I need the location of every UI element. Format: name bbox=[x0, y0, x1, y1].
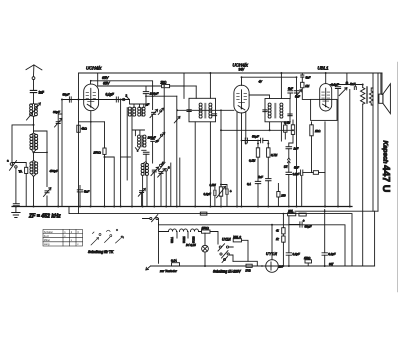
capacitor det B bbox=[261, 138, 263, 143]
wire tube2 diode pin bbox=[245, 112, 247, 139]
wire lamp stubs bbox=[204, 233, 206, 266]
switch TK sketch bbox=[91, 229, 124, 245]
wire jog 152-177 bbox=[146, 95, 177, 97]
resistor 1M grid3 bbox=[301, 82, 304, 88]
wire rail2 continue bbox=[184, 85, 196, 87]
wire 278 stubs bbox=[277, 184, 279, 207]
tube V4 rectifier UY1N bbox=[266, 260, 279, 273]
wire screen feed stub bbox=[97, 73, 99, 86]
svg-text:0,1µF: 0,1µF bbox=[204, 192, 211, 196]
capacitor trimmer t2 bbox=[158, 169, 166, 178]
svg-text:0,1µF: 0,1µF bbox=[328, 252, 335, 256]
svg-text:447 U: 447 U bbox=[380, 165, 391, 192]
switch wave band S1 bbox=[7, 159, 17, 171]
svg-text:250Ω: 250Ω bbox=[93, 151, 102, 155]
wire rectifier sides bbox=[252, 265, 374, 267]
wire coupler down and left to switch bbox=[12, 116, 34, 162]
wire column 171 bbox=[170, 163, 172, 207]
resistor on H4 bbox=[200, 212, 207, 215]
resistor 278 bbox=[277, 192, 280, 198]
coil L1 tuning bbox=[30, 125, 38, 152]
resistor det 0.7M bbox=[267, 148, 270, 157]
tube U1 UCH4 bbox=[84, 84, 99, 111]
switch contact upper b bbox=[159, 132, 165, 139]
wire plate border right bbox=[397, 62, 399, 292]
capacitor 214 stub bbox=[214, 190, 216, 195]
wire antenna to cap bbox=[33, 80, 35, 90]
svg-text:UCH4/x: UCH4/x bbox=[86, 66, 102, 71]
svg-text:65V: 65V bbox=[102, 76, 109, 80]
wire tuning gang right bbox=[34, 131, 48, 207]
svg-text:UBL1: UBL1 bbox=[318, 66, 330, 71]
svg-text:1M: 1M bbox=[305, 84, 310, 88]
wire filter resistor stub bbox=[307, 263, 309, 266]
antenna bbox=[26, 65, 42, 70]
svg-text:Lang: Lang bbox=[44, 243, 50, 246]
lamp dial bbox=[202, 245, 209, 252]
wire output transformer columns bbox=[355, 85, 362, 267]
svg-text:2kΩ: 2kΩ bbox=[160, 81, 167, 85]
node contact 2 bbox=[123, 93, 130, 100]
svg-text:ZF = 452 kHz: ZF = 452 kHz bbox=[28, 214, 61, 220]
wire det lower to bus bbox=[288, 149, 290, 207]
wire speaker links bbox=[371, 88, 373, 105]
tube U2 UCH4 bbox=[234, 85, 249, 113]
wire 0.3Mb stubs bbox=[284, 122, 286, 139]
ground main bbox=[12, 207, 20, 218]
wire stub 114 bbox=[105, 157, 115, 207]
svg-text:B4 0,25: B4 0,25 bbox=[186, 243, 196, 247]
wire right verticals bottom bbox=[374, 211, 376, 266]
wire column 152 lower bbox=[152, 116, 154, 163]
wire padder jog bbox=[142, 149, 146, 151]
wire column 180 bbox=[179, 158, 181, 207]
coil antenna coupler bbox=[27, 103, 41, 120]
wire tube3 top cap bbox=[325, 73, 327, 84]
wire right frame columns bbox=[373, 73, 382, 211]
capacitor tone 0.1uF bbox=[335, 87, 340, 89]
resistor dropper R22 bbox=[282, 236, 285, 242]
resistor 0.3M bbox=[291, 125, 294, 135]
wire 0.7M column bbox=[267, 157, 269, 178]
wire selector to rectifier bbox=[233, 261, 257, 266]
transformer output core bbox=[366, 87, 367, 104]
svg-text:0,1A: 0,1A bbox=[171, 259, 177, 263]
capacitor filter1 bbox=[286, 253, 291, 255]
wire tube1 top cap line 65V bbox=[91, 81, 153, 110]
wire electrolytic stubs bbox=[221, 185, 227, 207]
resistor 250 ohm bbox=[103, 148, 106, 154]
wire to coil3 bbox=[143, 154, 147, 163]
coil padder bbox=[138, 135, 147, 147]
wire column 298 bbox=[296, 77, 298, 206]
capacitor electrolytic AF bbox=[226, 189, 232, 194]
capacitor det2 bbox=[266, 179, 271, 181]
capacitor 50pF det A bbox=[245, 138, 247, 143]
svg-text:0,1µF: 0,1µF bbox=[293, 252, 300, 256]
capacitor 5nF bypass bbox=[77, 190, 82, 192]
svg-text:0,7M: 0,7M bbox=[271, 153, 278, 157]
wire det line to 0.7M bbox=[258, 141, 268, 148]
svg-text:50pF: 50pF bbox=[252, 135, 259, 139]
svg-text:f,N: f,N bbox=[284, 165, 287, 169]
transformer IF2 bbox=[263, 99, 292, 122]
svg-text:0,5M: 0,5M bbox=[210, 183, 217, 187]
diode marks bbox=[288, 158, 291, 163]
node junction dots bbox=[15, 72, 364, 267]
resistor 0.3Mb bbox=[284, 125, 287, 132]
wire right bus segment bbox=[295, 210, 378, 212]
capacitor det lower bbox=[286, 172, 292, 174]
svg-text:5nF: 5nF bbox=[288, 87, 293, 91]
wire column 177 bbox=[176, 96, 178, 206]
wire tube3 cathode column bbox=[311, 122, 313, 171]
resistor filter bbox=[305, 260, 312, 263]
svg-text:UBL1: UBL1 bbox=[171, 236, 174, 243]
wire tube1 anode rail 65V bbox=[98, 73, 184, 98]
capacitor trimmer 177 bbox=[174, 116, 180, 123]
svg-text:65V: 65V bbox=[103, 82, 110, 86]
capacitor trimmer tone bbox=[339, 88, 347, 96]
wire tone columns bbox=[338, 73, 355, 207]
svg-text:30pF: 30pF bbox=[53, 110, 60, 114]
svg-text:TA: TA bbox=[19, 170, 23, 174]
capacitor electrolytic 50uF bbox=[300, 219, 312, 229]
resistor series2 bbox=[299, 213, 306, 216]
wire det1 bottom bbox=[257, 184, 259, 207]
wire filter1 bottom bbox=[288, 255, 290, 266]
capacitor trimmer osc bbox=[150, 109, 158, 117]
coil L2 tuning bbox=[30, 152, 38, 176]
wire mains arrow bbox=[146, 266, 151, 270]
wire 50uF link bbox=[289, 216, 300, 253]
svg-text:5nF: 5nF bbox=[294, 166, 299, 170]
capacitor osc grid 100pF bbox=[143, 92, 148, 94]
svg-text:5nF: 5nF bbox=[306, 75, 311, 79]
wire column 127 bbox=[126, 108, 128, 180]
capacitor 5nF tone bbox=[354, 87, 356, 90]
table band switch bbox=[43, 230, 83, 247]
wire cathode network bbox=[302, 171, 314, 207]
wire AVC line bbox=[221, 129, 293, 131]
switch mains bbox=[150, 215, 158, 222]
wire tube2 top cap bbox=[242, 77, 297, 85]
wire grid3 column bbox=[302, 73, 310, 99]
svg-text:Schalter: Schalter bbox=[44, 231, 53, 234]
resistor LP bbox=[77, 125, 80, 132]
switch voltage selector bbox=[218, 244, 229, 263]
wire 290 stub bbox=[289, 93, 291, 99]
wire t2 stub bbox=[160, 173, 162, 206]
switch contact upper a bbox=[158, 108, 164, 115]
svg-text:NSL: NSL bbox=[288, 209, 294, 213]
resistor fuse bbox=[172, 263, 180, 266]
wire rail2b bbox=[330, 84, 355, 86]
svg-text:Mittel: Mittel bbox=[44, 239, 50, 242]
wire trimmer lower stub bbox=[141, 193, 143, 207]
wire tube2 cathode bbox=[236, 113, 238, 207]
resistor det 0.1M bbox=[256, 148, 259, 157]
wire jog 120 bbox=[121, 156, 131, 158]
capacitor cathode bypass bbox=[301, 170, 303, 175]
wire cap to coupler bbox=[33, 93, 35, 104]
svg-text:Kurz: Kurz bbox=[44, 235, 50, 238]
wire tube3 anode column bbox=[324, 122, 326, 207]
svg-text:667: 667 bbox=[329, 262, 334, 266]
transformer IF1 bbox=[187, 98, 217, 122]
wire tube2 triode pin bbox=[241, 113, 243, 207]
svg-text:DY2: DY2 bbox=[246, 268, 252, 272]
capacitor series on 296 bbox=[294, 91, 299, 93]
svg-text:UCH4: UCH4 bbox=[183, 236, 186, 243]
svg-text:4kΩ: 4kΩ bbox=[81, 127, 87, 131]
transformer output secondary bbox=[369, 91, 373, 103]
svg-text:400pF: 400pF bbox=[50, 169, 59, 173]
wire 2k drop to switch bbox=[161, 88, 164, 165]
svg-text:0,1: 0,1 bbox=[247, 182, 251, 186]
wire L2 to bus bbox=[33, 177, 35, 207]
svg-text:µF: µF bbox=[156, 139, 159, 143]
wire switch3 to bus bbox=[165, 171, 167, 206]
resistor 2k bbox=[162, 85, 170, 88]
svg-text:Kapsch: Kapsch bbox=[382, 141, 389, 164]
wire mains line bbox=[143, 219, 159, 225]
svg-text:0,1µF: 0,1µF bbox=[106, 92, 115, 96]
capacitor stub 290 bbox=[288, 91, 293, 93]
wire secondary bus to power unit bbox=[69, 207, 352, 267]
speaker LS bbox=[379, 84, 391, 114]
svg-text:50µF: 50µF bbox=[305, 224, 312, 228]
wire cathode link bbox=[79, 121, 105, 123]
wire top rail B+ bbox=[79, 72, 382, 74]
tube U3 UBL1 bbox=[320, 84, 332, 111]
wire 100pF stubs bbox=[144, 86, 146, 104]
wire 250 column bbox=[104, 122, 106, 207]
capacitor det1 bbox=[255, 181, 260, 183]
svg-text:UY1N: UY1N bbox=[222, 238, 231, 242]
svg-text:250: 250 bbox=[280, 193, 286, 197]
svg-text:NSL 0: NSL 0 bbox=[233, 235, 241, 239]
wire tube2 anode to IF2 bbox=[249, 95, 269, 99]
resistor cathode bbox=[313, 171, 318, 175]
wire tube1 cathode down bbox=[90, 111, 92, 207]
svg-text:50pF: 50pF bbox=[63, 93, 70, 97]
wire column 132 bbox=[132, 116, 145, 206]
resistor TA bbox=[25, 167, 28, 173]
svg-text:150Ω: 150Ω bbox=[202, 226, 210, 230]
wire pot to bus bbox=[220, 196, 222, 206]
wire coil3 bottoms bbox=[143, 175, 147, 206]
power unit frame bbox=[151, 223, 346, 266]
capacitor trimmer lower bbox=[138, 188, 145, 196]
wire IF2 bottoms bbox=[270, 122, 282, 141]
wire t1 stub bbox=[153, 172, 155, 207]
svg-text:0,1M: 0,1M bbox=[249, 159, 256, 163]
wire detector line bbox=[242, 140, 261, 142]
wire TA resistor bbox=[12, 163, 26, 207]
wire selector wiring bbox=[228, 240, 248, 261]
svg-text:µF: µF bbox=[146, 103, 150, 107]
resistor NSL series bbox=[288, 213, 296, 216]
wire 214 stub bbox=[214, 188, 216, 207]
wire switch to ground cap bbox=[15, 168, 17, 203]
svg-text:zur Tonfeder: zur Tonfeder bbox=[159, 269, 178, 273]
capacitor trimmer t1 bbox=[151, 167, 159, 176]
svg-text:+: + bbox=[230, 189, 232, 193]
capacitor trimmer grid3 bbox=[296, 90, 302, 97]
wire 0.3M stubs bbox=[289, 120, 293, 147]
switch osc S2 bbox=[158, 161, 170, 171]
capacitor 5nF grid3 bbox=[301, 75, 304, 77]
wire left drop from top rail to grid network bbox=[78, 73, 80, 214]
wire chassis bus bbox=[12, 206, 352, 208]
wire IF1 bottoms bbox=[195, 122, 210, 207]
svg-text:34V: 34V bbox=[239, 68, 246, 72]
wire det2 bottom bbox=[267, 181, 269, 207]
wire tube1 grid anode line bbox=[62, 99, 130, 101]
wire trimmer column bbox=[58, 114, 62, 207]
resistor DY1L bbox=[246, 264, 252, 267]
capacitor 1nF det bbox=[286, 147, 292, 149]
wire IF1 to tube2 grid bbox=[177, 109, 234, 111]
wire 5nF stub bbox=[79, 186, 81, 207]
resistor NSL bbox=[233, 239, 241, 242]
coil oscillator pair bbox=[128, 107, 145, 116]
heater chain coils bbox=[169, 229, 199, 238]
wire rectifier top bbox=[271, 225, 273, 260]
svg-text:1kΩ: 1kΩ bbox=[315, 129, 321, 133]
svg-text:UCH4: UCH4 bbox=[193, 236, 196, 243]
label Kapsch bbox=[380, 141, 391, 193]
svg-text:Schaltung 1U-220V: Schaltung 1U-220V bbox=[213, 270, 242, 274]
wire heater to selector bbox=[210, 232, 218, 245]
wire cathode network right bbox=[319, 172, 326, 174]
wire volume column bbox=[220, 110, 222, 187]
wire 0.1M column bbox=[257, 157, 259, 181]
wire padder stubs bbox=[135, 130, 140, 151]
svg-text:0,3M: 0,3M bbox=[284, 121, 291, 125]
capacitor ground 5nF bbox=[13, 204, 19, 206]
svg-text:100pF: 100pF bbox=[150, 92, 159, 96]
label heater tubes bbox=[171, 236, 196, 243]
wire IF1 tops bbox=[196, 73, 210, 98]
resistor 1k cathode bbox=[310, 125, 313, 136]
capacitor padder series bbox=[143, 152, 149, 154]
svg-text:+: + bbox=[303, 219, 305, 223]
capacitor trimmer gang1 bbox=[44, 188, 52, 197]
box tube3 screen bbox=[311, 99, 337, 120]
capacitor antenna series bbox=[30, 90, 36, 92]
wire heater line bbox=[159, 231, 202, 233]
wire dropper column bbox=[282, 215, 284, 267]
capacitor anode coupling bbox=[116, 97, 118, 102]
capacitor filter2 bbox=[322, 253, 327, 255]
capacitor on 152 column bbox=[151, 139, 155, 141]
wire antenna lead bbox=[33, 65, 35, 77]
coil osc secondary bbox=[141, 163, 148, 175]
node antenna terminal bbox=[32, 77, 35, 80]
svg-text:Schaltung für TK: Schaltung für TK bbox=[88, 250, 114, 254]
wire long column 120 bbox=[120, 100, 122, 207]
resistor dropper R21 bbox=[282, 228, 285, 234]
capacitor trimmer grid bbox=[55, 118, 63, 127]
wire IF2 top feed bbox=[280, 73, 282, 99]
potentiometer volume bbox=[217, 186, 226, 197]
transformer output primary bbox=[361, 88, 365, 105]
wire contact to osc coils bbox=[130, 100, 144, 108]
svg-text:5nF: 5nF bbox=[84, 190, 89, 194]
svg-text:5nF: 5nF bbox=[258, 175, 263, 179]
resistor 150 heater bbox=[202, 230, 211, 233]
svg-text:1nF: 1nF bbox=[39, 91, 45, 95]
wire tube1 top cap bbox=[90, 81, 92, 84]
node junction blob bbox=[345, 81, 348, 85]
wire grid column bbox=[61, 100, 63, 207]
svg-text:150Ω: 150Ω bbox=[304, 256, 310, 260]
capacitor grid 50pF bbox=[69, 97, 71, 102]
wire filter2 stubs bbox=[324, 210, 326, 267]
